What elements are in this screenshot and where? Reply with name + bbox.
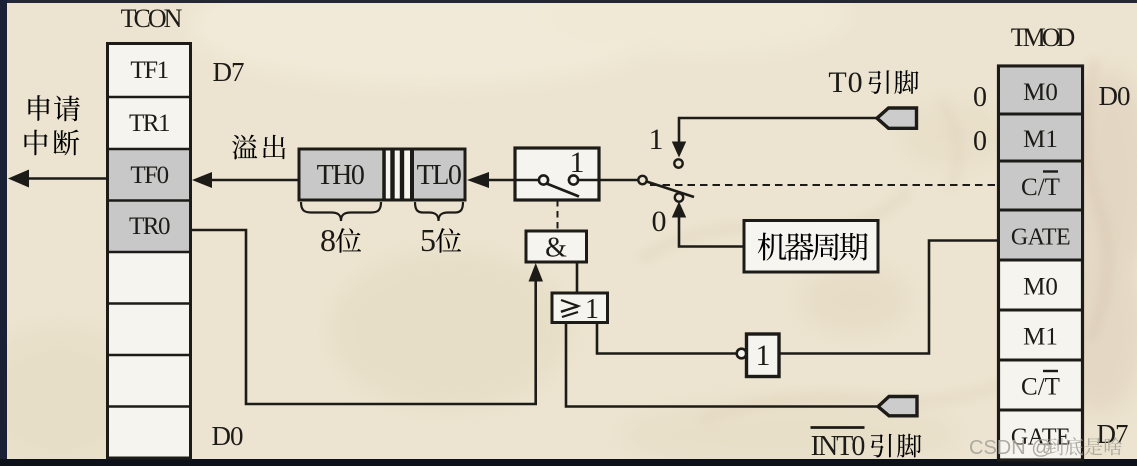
- svg-text:&: &: [545, 233, 567, 264]
- inverter bubble: [737, 349, 747, 359]
- svg-text:M0: M0: [1023, 274, 1058, 301]
- svg-text:TMOD: TMOD: [1011, 23, 1075, 52]
- svg-text:TF1: TF1: [130, 57, 167, 84]
- svg-text:M1: M1: [1023, 324, 1058, 351]
- svg-text:INT0: INT0: [811, 431, 865, 462]
- label 5 wei: [420, 222, 461, 258]
- T0 pin label (T0 yin jiao): [828, 66, 918, 99]
- svg-text:C/T: C/T: [1021, 374, 1060, 401]
- svg-text:D7: D7: [213, 57, 244, 87]
- AND gate &: [526, 231, 587, 262]
- T0 pin symbol: [877, 108, 917, 128]
- wire counting switch to C/T switch pivot: [599, 179, 638, 182]
- svg-text:D0: D0: [212, 421, 243, 451]
- brace under TH0 (8 bits): [301, 202, 381, 221]
- svg-text:1: 1: [649, 123, 664, 156]
- C/T switch arm: [647, 182, 695, 198]
- cell TF0 (shaded): [109, 149, 189, 201]
- svg-text:D7: D7: [1097, 419, 1128, 449]
- contact node 0 (counter): [675, 193, 683, 201]
- svg-text:GATE: GATE: [1011, 225, 1070, 251]
- interrupt request arrowhead: [8, 170, 29, 188]
- svg-text:M0: M0: [1023, 79, 1058, 106]
- svg-text:TR1: TR1: [129, 110, 169, 137]
- wire machine cycle to switch 0-contact: [679, 216, 744, 247]
- inverter box 1: [747, 334, 780, 377]
- wire inside switch left: [516, 179, 538, 182]
- OR gate >=1: [552, 293, 608, 323]
- wire inverter to GATE: [779, 241, 997, 354]
- svg-text:0: 0: [973, 126, 987, 157]
- overflow arrowhead: [192, 172, 212, 188]
- TCON register column: [108, 44, 191, 459]
- C/T switch pivot node: [638, 176, 646, 184]
- dashed control line to AND gate: [557, 200, 559, 230]
- wire AND output down to OR gate: [576, 262, 579, 293]
- TL0 shaded section: [414, 151, 464, 199]
- contact node 1 (timer): [674, 159, 682, 167]
- label 8 wei: [320, 222, 361, 258]
- switch contact node right: [569, 175, 578, 184]
- wire OR gate to inverter: [597, 323, 737, 354]
- CSDN watermark: [969, 437, 1122, 459]
- svg-text:5: 5: [420, 222, 436, 258]
- arrowhead into AND gate: [529, 263, 544, 282]
- wire switch to TL0: [487, 179, 515, 182]
- wire T0 pin down to contact 1: [679, 118, 877, 144]
- svg-text:0: 0: [973, 82, 987, 113]
- overflow label (yi chu): [232, 135, 285, 160]
- svg-text:M1: M1: [1023, 126, 1058, 153]
- svg-text:8: 8: [320, 222, 336, 258]
- arrowhead down into contact 1: [672, 142, 686, 158]
- cell TR0 (shaded): [109, 201, 189, 253]
- svg-text:TCON: TCON: [121, 4, 183, 33]
- interrupt request label (shen qing zhong duan): [24, 95, 79, 155]
- svg-text:CSDN @: CSDN @: [969, 437, 1052, 459]
- svg-text:T0: T0: [828, 66, 863, 99]
- overflow wire into TF0: [209, 179, 299, 182]
- svg-text:1: 1: [585, 294, 599, 325]
- svg-text:1: 1: [756, 339, 771, 372]
- svg-text:TF0: TF0: [130, 162, 168, 189]
- INT0 pin symbol: [878, 397, 917, 416]
- svg-text:TL0: TL0: [417, 160, 461, 191]
- wire OR gate to INT0 line: [566, 323, 877, 407]
- arrowhead into TL0: [467, 172, 489, 188]
- svg-text:C/T: C/T: [1021, 174, 1060, 201]
- TMOD cell dividers: [999, 114, 1082, 410]
- divider stripes between TH0 and TL0: [384, 149, 412, 200]
- register TH0/TL0 box: [299, 149, 465, 200]
- TCON cell dividers: [108, 97, 190, 407]
- machine cycle box (ji qi zhou qi): [744, 221, 878, 273]
- switch contact node left: [539, 175, 548, 184]
- brace under TL0 (5 bits): [415, 202, 463, 221]
- svg-text:1: 1: [570, 146, 585, 179]
- TMOD shaded upper nibble: [1000, 68, 1081, 259]
- TR0 wire to AND gate: [191, 230, 536, 404]
- svg-text:TH0: TH0: [317, 160, 364, 191]
- INT0 pin label with overline (INT0 yin jiao): [811, 428, 922, 463]
- TMOD register column: [999, 66, 1083, 460]
- switch arm: [547, 184, 580, 197]
- counting switch box: [515, 148, 599, 200]
- interrupt request arrow wire: [24, 177, 107, 180]
- dashed select line to C/T bit: [650, 184, 997, 186]
- wire inside switch right: [578, 179, 598, 182]
- svg-text:TR0: TR0: [129, 213, 170, 240]
- arrowhead up into 0 contact: [672, 202, 686, 218]
- svg-text:0: 0: [652, 205, 667, 238]
- svg-text:D0: D0: [1099, 81, 1130, 111]
- TH0 shaded section: [301, 151, 383, 199]
